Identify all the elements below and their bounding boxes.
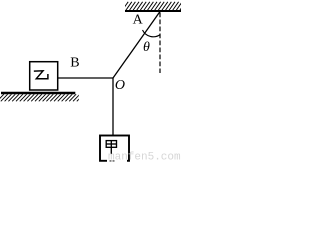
svg-text:θ: θ — [143, 40, 150, 55]
angle arc theta — [143, 30, 161, 37]
floor hatch — [0, 94, 84, 101]
ceiling hatch — [122, 2, 186, 11]
string O to jia (vertical) — [112, 78, 114, 136]
svg-text:manfen5.com: manfen5.com — [108, 152, 181, 163]
svg-text:O: O — [115, 78, 125, 93]
svg-text:A: A — [133, 12, 144, 27]
watermark erases part of box bottom edge — [107, 158, 127, 163]
block yi box — [30, 62, 58, 90]
svg-text:B: B — [70, 55, 79, 70]
residual marks of box bottom under watermark — [110, 160, 115, 162]
string B (horizontal) — [58, 77, 114, 79]
yi character (drawn) — [35, 71, 48, 79]
floor line — [1, 92, 75, 94]
ceiling line — [125, 10, 181, 12]
jia character (drawn) — [106, 141, 116, 154]
string AO (slanted) — [113, 12, 160, 79]
block jia box — [100, 136, 129, 161]
vertical dashed reference line — [159, 13, 161, 74]
